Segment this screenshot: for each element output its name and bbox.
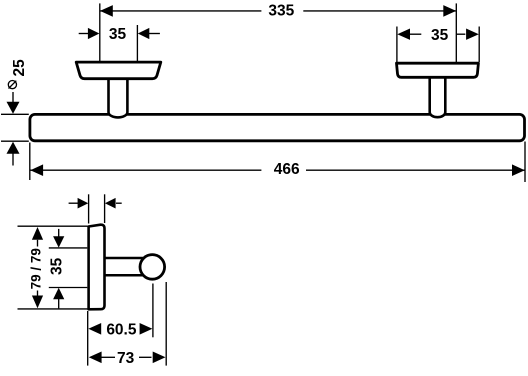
side view stem top line <box>105 257 147 260</box>
side view wall plate <box>89 225 105 310</box>
extension line 35-side bottom <box>49 287 88 289</box>
dimension plate thickness: arrows outside pointing inward <box>69 198 122 209</box>
dimension 35 left post: arrows outside <box>79 28 160 39</box>
label 35 side <box>49 257 66 275</box>
bar (towel rail, top view) <box>30 114 525 140</box>
extension line 73 right <box>165 282 167 366</box>
label 73 <box>117 350 135 367</box>
svg-text:60.5: 60.5 <box>106 322 137 339</box>
dimension dia25: vertical line and arrows <box>7 92 20 166</box>
extension line 60.5/73 left <box>87 311 89 366</box>
left post base plate (top view) <box>76 62 161 79</box>
svg-text:335: 335 <box>268 2 294 19</box>
extension line 79/79 top <box>18 225 88 227</box>
extension line shared left (335 / 35) <box>99 3 101 61</box>
dimension 79/79: vertical line and arrows <box>32 227 43 308</box>
extension line left-35 right <box>136 25 138 62</box>
label 79/79 <box>28 248 43 289</box>
svg-text:35: 35 <box>431 27 449 44</box>
extension line thickness right <box>104 194 106 223</box>
right post stem (top view) <box>430 76 446 117</box>
extension line 35-side top <box>49 247 88 249</box>
extension line right-35 right <box>478 27 480 63</box>
side view stem bottom line <box>105 274 147 277</box>
right post base plate (top view) <box>397 63 479 77</box>
dimension 73: line and arrows <box>89 352 166 364</box>
side view bar cross-section circle <box>140 255 165 280</box>
svg-text:35: 35 <box>109 26 127 43</box>
label 466 <box>274 161 300 178</box>
svg-text:35: 35 <box>49 257 66 275</box>
svg-text:73: 73 <box>117 350 135 367</box>
label 60.5 <box>106 322 137 339</box>
svg-text:79 / 79: 79 / 79 <box>28 248 43 289</box>
extension line right-35 left <box>396 27 398 63</box>
extension line 79/79 bottom <box>18 308 88 310</box>
label dia 25 <box>8 59 28 89</box>
extension line thickness left <box>88 194 90 223</box>
dimension 35 right post: arrows inside pointing outward <box>397 29 479 40</box>
extension line 60.5 right <box>152 284 154 338</box>
dimension 35 side: vertical arrows outside <box>53 229 64 309</box>
label 35 right <box>431 27 449 44</box>
dimension 466: line and arrows <box>30 164 525 176</box>
extension line 466 left <box>29 143 31 181</box>
svg-text:25: 25 <box>11 59 28 77</box>
svg-text:466: 466 <box>274 161 300 178</box>
dimension 60.5: arrows <box>88 323 152 335</box>
extension line bar top left (dia 25) <box>1 113 29 115</box>
extension line 466 right <box>524 142 526 183</box>
left post stem (top view) <box>109 76 128 117</box>
label 335 <box>268 2 294 19</box>
dimension 335: line and arrows <box>100 5 456 17</box>
label 35 left <box>109 26 127 43</box>
extension line bar bottom left (dia 25) <box>1 140 29 142</box>
extension line 335 right <box>455 3 457 62</box>
